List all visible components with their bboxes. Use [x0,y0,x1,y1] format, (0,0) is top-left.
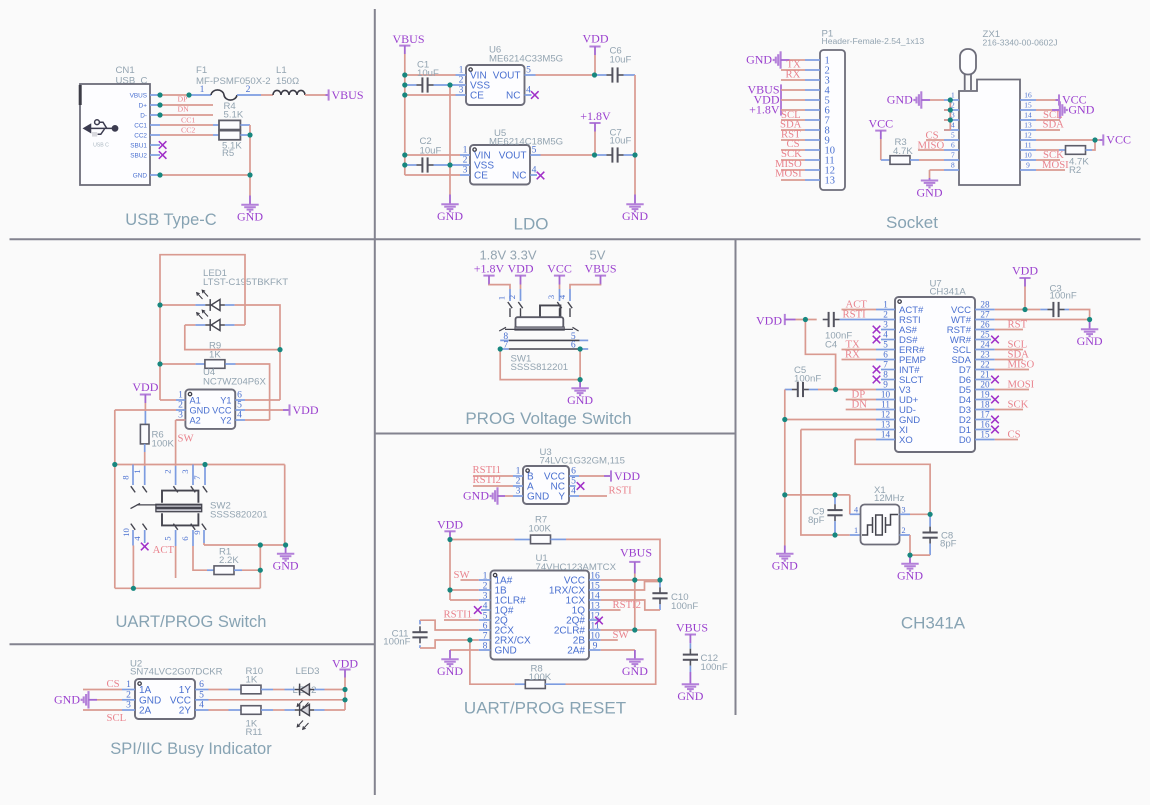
pin stub U7-23 [975,359,995,361]
section divider horizontal top [10,238,1141,240]
svg-text:MF-PSMF050X-2: MF-PSMF050X-2 [196,76,271,87]
svg-text:11: 11 [881,400,890,410]
wire MOSI ZX1 [1036,169,1065,171]
svg-text:6: 6 [571,340,576,351]
svg-text:12MHz: 12MHz [874,493,905,504]
ground GND LDO left [449,195,451,204]
svg-text:5V: 5V [590,248,606,263]
pin stub U1-8 [479,649,491,651]
svg-text:150Ω: 150Ω [276,76,299,87]
wire R6 to SW2 pin1 [144,452,146,466]
svg-text:15: 15 [1024,100,1032,109]
pin stub CN1 [150,124,160,126]
wire C5 left rail [784,390,786,546]
ground GND U1 pin9 [634,650,636,659]
wire SW2 right loop [284,465,286,546]
wire VCC U4 [245,409,283,411]
pin stub P1-7 [805,119,820,121]
svg-text:GND: GND [463,489,489,503]
svg-text:21: 21 [980,370,990,380]
svg-text:15: 15 [980,430,990,440]
no-connect SBU2 [159,151,167,159]
svg-text:GND: GND [437,664,463,678]
capacitor C5 [785,389,792,391]
pin stub U7-22 [975,369,995,371]
wire VDD to VCC [1024,287,1026,310]
wire RSTI2 U1 [601,609,621,611]
svg-text:20: 20 [980,380,990,390]
svg-text:R11: R11 [246,727,263,738]
svg-text:Y1: Y1 [220,396,231,406]
svg-text:CE: CE [474,171,488,182]
svg-text:+1.8V: +1.8V [749,103,780,117]
pin stub ZX1-15 [1020,109,1036,111]
svg-text:GND: GND [133,172,148,179]
svg-text:GND: GND [1077,334,1103,348]
IC U7 [895,297,975,452]
svg-text:100nF: 100nF [794,374,821,385]
svg-text:SW: SW [613,629,630,641]
wire X1 pin2 [900,534,911,536]
svg-text:3: 3 [126,700,131,711]
pin stub U1-11 [589,629,601,631]
svg-text:3: 3 [516,486,521,497]
wire X1 pin3 [900,513,911,515]
svg-text:CN1: CN1 [116,65,135,76]
svg-text:1: 1 [854,526,858,535]
wire L1 to VBUS [305,94,326,96]
pin stub ZX1-3 [944,119,959,121]
svg-text:19: 19 [980,390,990,400]
LED LED1a [160,304,195,306]
pin stub ZX1-5 [944,139,959,141]
pin stub U1-3 [479,599,491,601]
svg-text:GND: GND [746,53,772,67]
svg-text:8pF: 8pF [808,515,825,526]
svg-text:2: 2 [507,295,517,299]
svg-text:CC1: CC1 [181,116,195,125]
wire U7 VCC row [995,309,1041,311]
ground flag GND U3 [491,487,498,504]
svg-text:5: 5 [951,130,955,139]
wire C8 bottom [910,554,930,556]
pin stub P1-5 [805,99,820,101]
wire SCK P1 [781,159,805,161]
svg-text:7: 7 [503,340,508,351]
pin stub CN1 [150,144,160,146]
svg-text:8: 8 [483,640,488,651]
wire 2RX to pin7 [470,639,479,641]
wire C6 to ground [634,75,636,195]
svg-text:RSTI2: RSTI2 [473,474,502,486]
pin stub U7-10 [876,399,895,401]
wire U3 VCC [579,475,604,477]
svg-text:3: 3 [546,294,556,299]
pin stub ZX1-1 [944,99,959,101]
power flag VDD U4 right [283,409,290,411]
wire DN U7 [846,409,876,411]
wire R1 net vertical [259,545,261,588]
svg-text:4: 4 [883,330,888,340]
svg-text:10: 10 [881,390,891,400]
svg-text:SCK: SCK [1008,398,1029,410]
wire MISO U7 [995,369,1029,371]
resistor R5 [213,134,219,136]
no-connect U7 pin4 [873,336,881,344]
svg-text:ME6214C33M5G: ME6214C33M5G [489,54,563,65]
wire U1 pin15 to C10 [601,582,659,591]
svg-text:12: 12 [1024,130,1032,139]
svg-text:VBUS: VBUS [392,32,424,46]
svg-text:VCC: VCC [212,406,232,416]
svg-text:100nF: 100nF [383,637,410,648]
pin stub P1-3 [805,79,820,81]
pin stub P1-1 [805,59,820,61]
wire VBUS to 2CLR [634,580,636,630]
svg-text:1K: 1K [246,674,258,685]
wire VBUS [160,94,189,96]
svg-text:8: 8 [883,370,888,380]
wire RX U7 [842,359,877,361]
wire U7 GND row [785,419,876,421]
svg-text:28: 28 [980,300,990,310]
wire to ground [249,175,251,196]
svg-text:SBU1: SBU1 [130,142,147,149]
svg-text:5: 5 [532,145,537,156]
svg-text:MOSI: MOSI [775,168,802,180]
svg-text:ACT: ACT [153,544,175,556]
capacitor C1 [405,84,417,86]
pin stubs U2 left [122,689,135,691]
wire SDA ZX1 [1036,129,1060,131]
wire Y2 [245,419,270,421]
svg-text:SSSS812201: SSSS812201 [511,362,569,373]
wire LED1b right [235,324,245,326]
svg-text:USB C: USB C [93,143,109,149]
svg-text:PROG Voltage Switch: PROG Voltage Switch [465,409,631,428]
pin stub U1-15 [589,589,601,591]
capacitor C12 [689,643,691,648]
pin stub U7-28 [975,309,995,311]
svg-text:2: 2 [901,526,905,535]
svg-text:CS: CS [107,678,120,690]
no-connect SW2 pin4 [141,543,149,551]
pin stubs U3 left [513,475,523,477]
wire SCL U7 [995,349,1023,351]
pin stub U7-3 [881,329,895,331]
pin stub U1-9 [589,649,601,651]
svg-text:GND: GND [917,185,943,199]
svg-text:NC: NC [512,171,526,182]
svg-text:Header-Female-2.54_1x13: Header-Female-2.54_1x13 [822,36,925,46]
wire VDD rail U2 [344,678,346,711]
pin stub U7-11 [876,409,895,411]
wire VDD branch down [805,320,835,390]
socket ZX1 lever [960,49,976,75]
capacitor C9 [834,495,836,504]
svg-text:5: 5 [526,65,531,76]
svg-text:14: 14 [1024,110,1032,119]
svg-text:SN74LVC2G07DCKR: SN74LVC2G07DCKR [130,667,223,678]
svg-text:VCC: VCC [547,261,572,275]
svg-text:CC2: CC2 [134,132,147,139]
pin stub U7-1 [876,309,895,311]
svg-text:VDD: VDD [437,517,463,531]
svg-text:VOUT: VOUT [493,71,521,82]
IC U2 [135,679,195,719]
svg-text:GND: GND [567,393,593,407]
capacitor C11 [419,620,421,625]
wire XO [855,439,876,441]
svg-text:3: 3 [180,469,190,474]
wire LED top loop [160,255,245,325]
svg-text:14: 14 [881,430,891,440]
svg-text:1: 1 [132,469,142,473]
wire R11 to LED2 [273,709,285,711]
svg-text:100nF: 100nF [671,601,698,612]
no-connect U7 pin25 [991,336,999,344]
wire SDA P1 [781,129,805,131]
wire SW U1 pin1 [461,579,479,581]
wire RX [781,79,805,81]
wire LED1a right [235,305,280,400]
resistor R2 [1059,149,1066,151]
pin stub ZX1-12 [1020,139,1036,141]
svg-text:100nF: 100nF [1050,291,1077,302]
pin stub U1-2 [479,589,491,591]
svg-text:10uF: 10uF [417,68,439,79]
svg-text:C4: C4 [825,340,838,351]
svg-text:RSTI: RSTI [609,485,633,497]
svg-text:VBUS: VBUS [676,620,708,634]
pin stub U7-7 [881,369,895,371]
svg-text:10: 10 [121,528,131,537]
wire XI rail [801,430,835,536]
IC U5 [470,145,530,185]
svg-text:GND: GND [527,492,549,503]
no-connect U7 pin19 [991,396,999,404]
inductor L1 [273,90,305,95]
svg-text:3: 3 [883,320,888,330]
svg-text:GND: GND [772,559,798,573]
section divider vertical left [374,9,376,795]
svg-text:VDD: VDD [614,469,640,483]
svg-text:LDO: LDO [514,215,549,234]
svg-text:10uF: 10uF [610,55,632,66]
resistor R4 [213,124,219,126]
resistor R10 [209,689,229,691]
power flag VCC ZX1 pin16 [1036,99,1056,101]
wire VOUT U5 [541,154,595,156]
svg-text:L1: L1 [276,65,287,76]
svg-text:4: 4 [526,85,531,96]
ground GND ZX1 pin8 [929,178,931,180]
svg-text:8: 8 [121,475,131,480]
wire LED3 to VDD [325,689,346,691]
svg-text:CC2: CC2 [181,126,195,135]
ground GND C12 [689,672,691,684]
wire SCL P1 [781,119,805,121]
svg-text:SPI/IIC Busy Indicator: SPI/IIC Busy Indicator [110,740,272,758]
pin stubs U4 left [176,399,185,401]
svg-text:8pF: 8pF [940,539,957,550]
pin stub ZX1-14 [1020,119,1036,121]
svg-text:VOUT: VOUT [499,151,527,162]
svg-text:DP: DP [178,95,189,104]
wire SW1 bottom loop [500,349,580,380]
svg-text:9: 9 [1026,160,1030,169]
wire DP [160,104,213,106]
svg-text:9: 9 [883,380,888,390]
wire SW2 top row [115,464,285,466]
svg-text:216-3340-00-0602J: 216-3340-00-0602J [983,38,1058,48]
pin stub P1-11 [805,159,820,161]
svg-text:100K: 100K [152,439,175,450]
svg-text:4: 4 [532,165,537,176]
fuse F1 [189,94,211,96]
no-connect U3 NC [577,482,585,490]
svg-text:7: 7 [192,475,202,480]
pin stub U7-6 [876,359,895,361]
wire R9 right to Y2 [236,364,270,420]
pin stub U7-9 [876,389,895,391]
svg-text:1: 1 [883,300,888,310]
resistor R7 [450,539,515,541]
wire SW2 pin9 [203,543,205,545]
wire ZX1 pin11 to R2 [1036,149,1059,151]
svg-text:RSTI1: RSTI1 [444,608,473,620]
capacitor C4 [823,312,840,327]
pin stub U7-20 [975,389,995,391]
svg-text:16: 16 [1024,90,1032,99]
pin stub U1-6 [479,629,491,631]
wire ACT [842,309,877,311]
pin stub CN1 [150,134,160,136]
svg-text:CS: CS [1008,428,1021,440]
capacitor C7 [595,154,607,156]
svg-text:SW: SW [178,433,195,445]
wire VCC to pin3 [559,285,561,290]
ground flag GND ZX1 pin15 [1036,109,1052,111]
svg-text:SCL: SCL [107,712,127,724]
wire U1 pin9 GND [601,649,635,651]
wire VDD to pin3 [450,599,479,601]
resistor R8 [515,683,526,685]
resistor R11 [209,709,229,711]
svg-text:VBUS: VBUS [620,545,652,559]
svg-text:100K: 100K [529,672,552,683]
resistor R3 [881,159,890,161]
svg-text:GND: GND [237,210,263,224]
LED3 arrows [297,700,303,706]
pin stub ZX1-6 [944,149,959,151]
LED LED3 [285,689,295,691]
pin stub U7-25 [975,339,991,341]
pin stub ZX1-8 [944,169,959,171]
wire RST U7 [995,329,1023,331]
no-connect U7 pin16 [991,426,999,434]
section divider horizontal UART-PROG [375,433,736,435]
svg-text:UART/PROG RESET: UART/PROG RESET [464,699,626,718]
svg-text:USB Type-C: USB Type-C [125,211,216,229]
wire crystal top row [785,494,850,496]
IC U3 [523,466,569,504]
svg-text:VDD: VDD [293,403,319,417]
wire A1 [160,399,176,401]
svg-text:DN: DN [178,105,190,114]
LED1a arrows [202,290,208,296]
wire MOSI P1 [781,179,805,181]
svg-text:GND: GND [622,664,648,678]
svg-text:10: 10 [1024,150,1032,159]
pin stub U7-12 [876,419,895,421]
pin stub CN1 [150,154,160,156]
IC U6 [466,65,525,105]
svg-text:VDD: VDD [332,656,358,670]
pin stub U7-18 [975,409,995,411]
wire RSTI2 U3 [473,485,513,487]
svg-text:GND: GND [495,646,517,657]
svg-text:GND: GND [897,569,923,583]
svg-text:MOSI: MOSI [1008,378,1035,390]
svg-text:6: 6 [883,350,888,360]
svg-text:1K: 1K [209,350,221,361]
svg-text:2: 2 [163,469,173,473]
wire CS U7 [995,439,1018,441]
wire U1 pin14 to C10 bottom [601,600,660,610]
wire F1 to L1 [261,94,273,96]
ground GND crystal [909,555,911,563]
wire CC join vertical [249,125,251,175]
wire DN [160,114,213,116]
ground GND LDO right [634,195,636,204]
wire TX U7 [842,349,877,351]
section divider horizontal SPI-IIC [10,643,375,645]
pin stub ZX1-9 [1020,169,1036,171]
wire R2 to VCC [1092,140,1095,150]
wire GND [160,174,250,176]
no-connect U6 NC [531,91,539,99]
svg-text:VBUS: VBUS [130,92,147,99]
pin stub U1-14 [589,599,601,601]
svg-text:SSSS820201: SSSS820201 [210,509,268,520]
pin stub P1-10 [805,149,820,151]
wire VOUT U6 [536,74,595,76]
wire XO path [855,440,930,515]
ground flag GND P1 pin1 [774,51,781,68]
pin stub P1-4 [805,89,820,91]
pin stub U1-5 [479,619,491,621]
svg-text:17: 17 [980,410,990,420]
svg-text:3: 3 [463,165,468,176]
switch SW1 [509,289,511,301]
LED LED2 [285,709,295,711]
ground flag GND ZX1 pin1 [914,91,921,108]
svg-text:A2: A2 [190,416,201,426]
svg-text:5: 5 [883,340,888,350]
svg-text:7: 7 [951,150,955,159]
svg-text:NC7WZ04P6X: NC7WZ04P6X [203,377,267,388]
svg-text:CH341A: CH341A [930,286,967,297]
no-connect U1 pin4 [474,606,482,614]
wire SW2 pin6 to R1 [193,546,207,570]
wire VDD to pin2 [450,589,479,591]
svg-text:10uF: 10uF [610,136,632,147]
pin stub U7-17 [975,419,991,421]
wire SW U1 pin10 [601,639,618,641]
wire V3 [836,389,876,391]
svg-text:F1: F1 [196,65,207,76]
